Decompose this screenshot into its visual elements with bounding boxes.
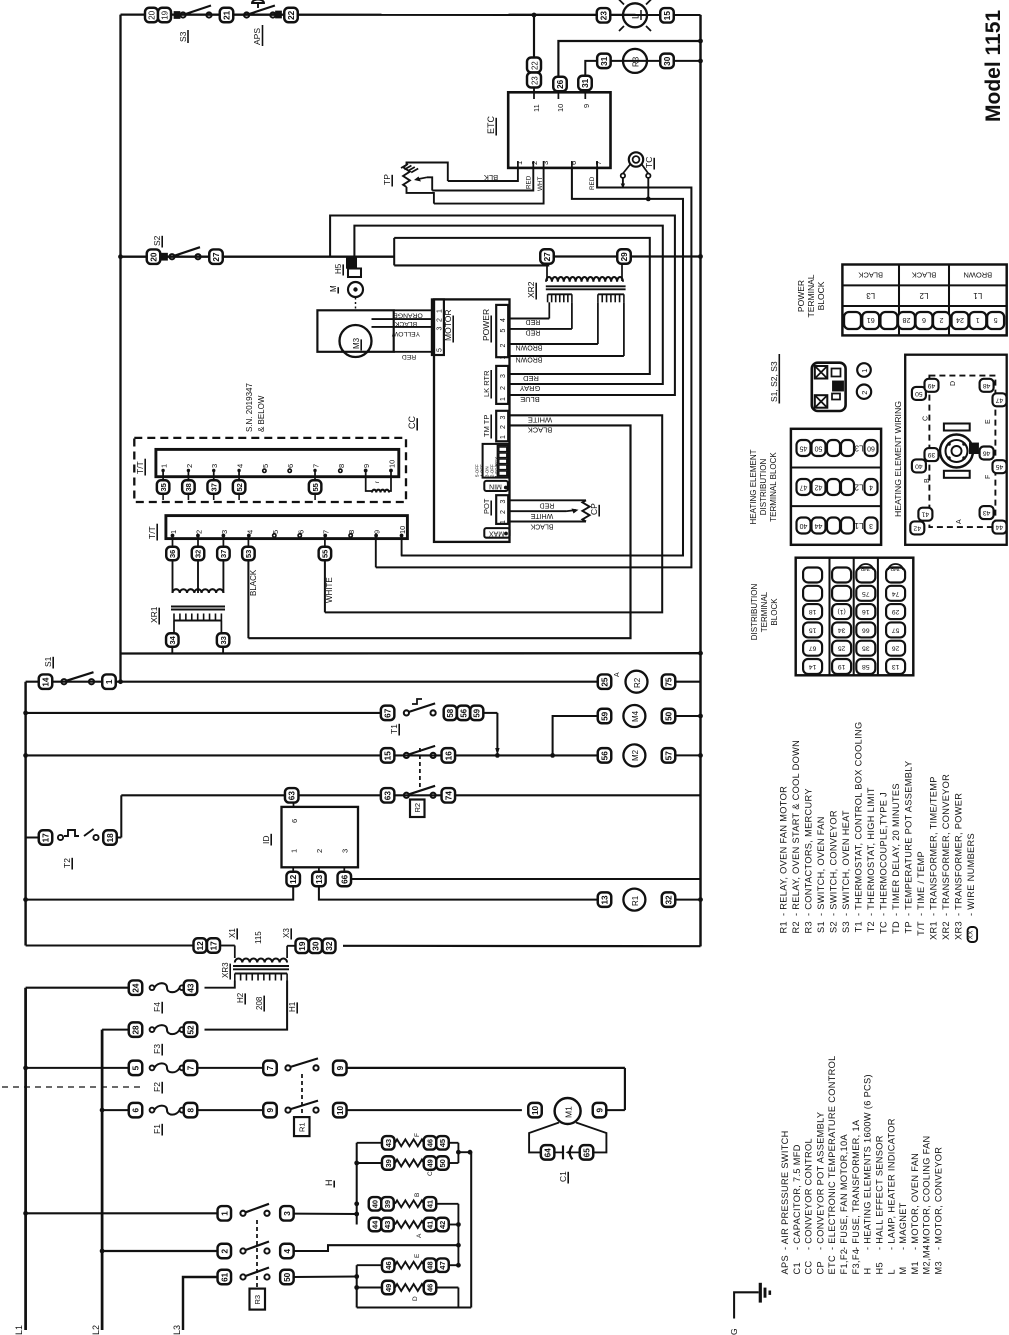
svg-text:58: 58 bbox=[862, 663, 870, 670]
svg-text:- HEATING ELEMENTS 1600W (6 PC: - HEATING ELEMENTS 1600W (6 PCS) bbox=[863, 1074, 873, 1250]
terminal 50 M4 bbox=[662, 709, 676, 724]
svg-text:S3: S3 bbox=[178, 31, 188, 42]
label F4 bbox=[152, 1002, 162, 1014]
svg-text:1: 1 bbox=[160, 464, 169, 468]
svg-text:- FUSE, FAN MOTOR,10A: - FUSE, FAN MOTOR,10A bbox=[839, 1134, 849, 1250]
wire ORANGE bbox=[393, 310, 432, 318]
terminal 7 b bbox=[263, 1061, 277, 1076]
XR2 secondary 2 bbox=[598, 294, 624, 302]
svg-text:59: 59 bbox=[600, 711, 609, 721]
svg-text:GRAY: GRAY bbox=[520, 384, 541, 393]
terminal 30 X3 bbox=[309, 939, 322, 954]
wire bank left rail 2 bbox=[354, 1265, 359, 1307]
svg-text:10: 10 bbox=[336, 1105, 345, 1115]
svg-text:16: 16 bbox=[444, 751, 453, 761]
relay coil R1 bbox=[623, 889, 645, 911]
svg-text:YELLOW: YELLOW bbox=[391, 330, 420, 337]
ETC box bbox=[508, 92, 610, 168]
hew label E bbox=[985, 419, 992, 424]
svg-text:24: 24 bbox=[956, 316, 964, 325]
svg-text:RED: RED bbox=[589, 176, 596, 190]
contactor R3 box bbox=[250, 1289, 266, 1310]
svg-text:F3: F3 bbox=[152, 1044, 162, 1054]
relay coil R3 bbox=[623, 49, 647, 73]
svg-text:2: 2 bbox=[500, 425, 507, 429]
label F3 bbox=[152, 1044, 162, 1056]
terminal 32 X3 bbox=[323, 939, 336, 954]
terminal 5 bbox=[129, 1061, 143, 1076]
terminal 67 bbox=[381, 706, 395, 721]
label WHT bbox=[537, 177, 544, 191]
wire T1 row bbox=[26, 712, 498, 714]
svg-text:POWER: POWER bbox=[481, 309, 491, 341]
node dot bus S2 bbox=[698, 254, 703, 259]
svg-text:T/T: T/T bbox=[135, 461, 145, 474]
svg-text:3: 3 bbox=[283, 1211, 292, 1216]
svg-text:4: 4 bbox=[500, 318, 507, 322]
terminal 66 bbox=[338, 872, 352, 887]
terminal 34 bbox=[166, 633, 179, 647]
svg-text:L1: L1 bbox=[14, 1325, 24, 1335]
hew label B bbox=[924, 478, 931, 483]
terminal 29 XR2 bbox=[617, 249, 631, 264]
svg-text:F2: F2 bbox=[152, 1082, 162, 1092]
fuse F2 bbox=[150, 1063, 185, 1072]
label G bbox=[729, 1328, 739, 1335]
terminal 8 bbox=[184, 1103, 198, 1118]
svg-text:M1: M1 bbox=[564, 1106, 574, 1118]
terminal 52 old bbox=[233, 480, 246, 500]
terminal 15 bbox=[660, 8, 674, 22]
svg-text:BLACK: BLACK bbox=[912, 271, 937, 280]
label E heater bbox=[414, 1253, 421, 1258]
ETC pin labels top bbox=[532, 92, 591, 112]
wire X1 row bbox=[26, 944, 701, 947]
svg-text:RED: RED bbox=[540, 501, 555, 508]
terminal 59 M4 bbox=[598, 709, 612, 724]
svg-text:37: 37 bbox=[209, 483, 218, 491]
wire row A bbox=[23, 1211, 357, 1216]
svg-text:RED: RED bbox=[526, 175, 533, 189]
svg-text:M3: M3 bbox=[352, 337, 361, 349]
svg-text:RED: RED bbox=[402, 353, 416, 360]
svg-text:L2: L2 bbox=[919, 291, 928, 300]
XR2 core bbox=[546, 286, 626, 289]
terminal 27 left bbox=[209, 249, 223, 264]
terminal 10 bbox=[333, 1103, 347, 1118]
svg-text:3: 3 bbox=[500, 500, 507, 504]
svg-text:20: 20 bbox=[147, 10, 156, 20]
label T2 bbox=[62, 858, 72, 870]
wire RED power4 bbox=[508, 318, 549, 325]
switch T1 bbox=[404, 699, 436, 716]
ptb colors bbox=[858, 271, 992, 280]
link R3 dashed bbox=[256, 1220, 258, 1288]
svg-text:- TRANSFORMER, CONVEYOR: - TRANSFORMER, CONVEYOR bbox=[941, 774, 951, 916]
svg-text:5: 5 bbox=[131, 1065, 140, 1070]
wire S2 row left bbox=[121, 256, 217, 258]
svg-text:MAX: MAX bbox=[489, 529, 505, 536]
svg-text:75: 75 bbox=[664, 677, 673, 687]
wire F4 row bbox=[26, 987, 129, 989]
lamp L bbox=[619, 0, 651, 31]
svg-text:1: 1 bbox=[860, 369, 869, 373]
node dot bus R3 bbox=[698, 59, 703, 64]
svg-text:S1: S1 bbox=[43, 656, 53, 667]
svg-text:29: 29 bbox=[892, 608, 900, 615]
wire XR1 primary risers bbox=[173, 560, 224, 593]
svg-text:R2: R2 bbox=[413, 803, 422, 813]
terminal 7 bbox=[184, 1061, 198, 1076]
svg-text:56: 56 bbox=[600, 751, 609, 761]
svg-text:39: 39 bbox=[384, 1159, 393, 1167]
svg-text:R1: R1 bbox=[631, 895, 640, 906]
svg-text:19: 19 bbox=[298, 941, 307, 951]
svg-text:- THERMOSTAT, HIGH LIMIT: - THERMOSTAT, HIGH LIMIT bbox=[866, 787, 876, 916]
svg-text:7: 7 bbox=[312, 464, 321, 468]
link R2 contacts dashed bbox=[419, 748, 421, 789]
svg-text:WHITE: WHITE bbox=[530, 512, 553, 519]
svg-text:HEATING ELEMENT: HEATING ELEMENT bbox=[749, 449, 758, 524]
svg-text:M: M bbox=[329, 285, 338, 292]
svg-text:4: 4 bbox=[245, 530, 254, 534]
svg-text:47: 47 bbox=[438, 1261, 447, 1269]
dtb column 2 bbox=[832, 568, 851, 675]
terminal 1 bbox=[102, 674, 116, 689]
svg-text:49: 49 bbox=[928, 382, 936, 389]
circled 2 bbox=[857, 385, 871, 399]
svg-text:23: 23 bbox=[599, 11, 608, 21]
svg-text:28: 28 bbox=[903, 316, 911, 325]
terminal 56 bbox=[457, 706, 470, 721]
label H5 bbox=[334, 263, 343, 275]
svg-text:10: 10 bbox=[556, 104, 565, 112]
svg-text:WHITE: WHITE bbox=[325, 577, 334, 603]
switch R1 contact b bbox=[285, 1101, 318, 1113]
label H1 bbox=[288, 1001, 297, 1013]
svg-text:3: 3 bbox=[341, 849, 350, 853]
wire 13 to R1 bbox=[319, 886, 598, 899]
terminal 18 bbox=[103, 830, 117, 845]
hew label C bbox=[923, 416, 930, 421]
hew outer box bbox=[905, 355, 1007, 545]
svg-text:- CAPACITOR, 7.5 MFD: - CAPACITOR, 7.5 MFD bbox=[792, 1144, 802, 1250]
label ID bbox=[261, 834, 271, 846]
wire right main bus bbox=[699, 15, 701, 947]
terminal 61 bbox=[218, 1270, 232, 1285]
svg-text:- MAGNET: - MAGNET bbox=[898, 1202, 908, 1250]
svg-text:41: 41 bbox=[426, 1221, 435, 1229]
svg-text:A: A bbox=[416, 1233, 423, 1238]
terminal 58 bbox=[444, 706, 457, 721]
XR1 primary coil bbox=[173, 589, 224, 593]
svg-text:TC: TC bbox=[644, 157, 654, 168]
dip switch block bbox=[475, 444, 509, 478]
label X3 bbox=[282, 928, 291, 940]
svg-text:22: 22 bbox=[287, 10, 296, 20]
label S2 bbox=[152, 235, 162, 247]
wire T2 branch bbox=[26, 795, 122, 837]
svg-text:T2: T2 bbox=[62, 858, 72, 868]
svg-text:64: 64 bbox=[544, 1148, 553, 1158]
hew label A bbox=[956, 519, 963, 524]
terminal 1 row bbox=[218, 1206, 232, 1221]
svg-text:2: 2 bbox=[185, 464, 194, 468]
terminal 38 old bbox=[182, 480, 195, 500]
svg-text:45: 45 bbox=[438, 1139, 447, 1147]
label GRAY bbox=[520, 384, 541, 393]
svg-text:5: 5 bbox=[261, 464, 270, 468]
terminal 32 bbox=[192, 536, 205, 561]
svg-text:ORANGE: ORANGE bbox=[393, 312, 423, 319]
motor M2 bbox=[623, 744, 645, 766]
svg-text:BLACK: BLACK bbox=[394, 320, 417, 327]
fuse F4 bbox=[150, 983, 185, 992]
svg-text:D: D bbox=[950, 381, 957, 386]
ground bbox=[734, 1283, 770, 1319]
XR1 secondary bbox=[174, 614, 221, 633]
terminal 3 row bbox=[280, 1206, 294, 1221]
svg-text:7: 7 bbox=[594, 161, 603, 165]
svg-text:BROWN: BROWN bbox=[516, 344, 543, 351]
svg-text:TERMINAL: TERMINAL bbox=[806, 274, 816, 317]
T/T pin contacts bbox=[171, 534, 404, 538]
svg-text:9: 9 bbox=[582, 104, 591, 108]
svg-text:T1: T1 bbox=[854, 921, 864, 932]
label RED pin7 bbox=[589, 176, 596, 190]
svg-text:F4: F4 bbox=[152, 1002, 162, 1012]
svg-text:H5: H5 bbox=[874, 1262, 884, 1274]
svg-text:TM TP: TM TP bbox=[482, 415, 491, 437]
hd section L3 bbox=[797, 440, 878, 456]
terminal 15 row2 bbox=[381, 748, 395, 763]
svg-text:50: 50 bbox=[915, 390, 923, 397]
svg-text:41: 41 bbox=[426, 1200, 435, 1208]
svg-text:RED: RED bbox=[526, 329, 541, 336]
relay R1 box bbox=[294, 1117, 310, 1136]
svg-text:1: 1 bbox=[105, 679, 114, 684]
svg-text:16: 16 bbox=[862, 608, 870, 615]
svg-text:45: 45 bbox=[800, 445, 808, 452]
svg-text:34: 34 bbox=[838, 626, 846, 633]
wire R3 row bbox=[610, 60, 700, 62]
svg-text:T/T: T/T bbox=[147, 526, 157, 539]
wire M4 branch bbox=[553, 716, 598, 755]
link R1 dashed bbox=[301, 1074, 303, 1117]
terminal 59 bbox=[470, 706, 483, 721]
svg-text:9: 9 bbox=[266, 1108, 275, 1113]
circled 1 bbox=[857, 363, 871, 377]
wire R1 to bus bbox=[676, 897, 703, 902]
svg-text:13: 13 bbox=[600, 895, 609, 905]
wire T1 drop bbox=[495, 713, 499, 756]
wire BLACK pot bbox=[508, 522, 586, 530]
ID pin 6 bbox=[290, 803, 299, 823]
svg-text:S.N. 2019347: S.N. 2019347 bbox=[245, 383, 254, 432]
svg-text:26: 26 bbox=[556, 79, 565, 89]
svg-text:TC: TC bbox=[879, 921, 889, 934]
svg-text:H5: H5 bbox=[334, 263, 343, 274]
connector MIN bbox=[484, 481, 508, 491]
svg-text:4: 4 bbox=[283, 1248, 292, 1253]
terminal 52 F3 bbox=[184, 1022, 198, 1037]
svg-text:3: 3 bbox=[869, 522, 873, 529]
svg-text:M2: M2 bbox=[631, 749, 640, 761]
wire XR2 sec2 legs bbox=[598, 302, 624, 356]
svg-text:T2: T2 bbox=[866, 921, 876, 932]
heater A bbox=[369, 1218, 459, 1232]
ptb phases bbox=[866, 291, 983, 300]
label TC bbox=[644, 157, 654, 170]
svg-text:- TEMPERATURE POT ASSEMBLY: - TEMPERATURE POT ASSEMBLY bbox=[904, 761, 914, 916]
terminal 17 X1 bbox=[207, 938, 220, 953]
label RED loop bbox=[523, 374, 539, 383]
terminal 24 bbox=[129, 980, 143, 995]
label X1 bbox=[228, 928, 237, 940]
hew label F bbox=[985, 475, 992, 479]
label RED pin2 bbox=[526, 175, 533, 189]
connector POT bbox=[482, 495, 508, 524]
svg-text:61: 61 bbox=[220, 1272, 229, 1282]
svg-text:115: 115 bbox=[254, 931, 263, 944]
wire ETC pin11 riser bbox=[533, 15, 535, 58]
wire XR3 primary left bbox=[205, 981, 235, 988]
terminal 6 bbox=[129, 1103, 143, 1118]
label XR3 bbox=[221, 962, 230, 980]
wire TP bottom bbox=[407, 187, 434, 204]
svg-text:ID: ID bbox=[261, 836, 271, 845]
svg-text:- RELAY, OVEN FAN MOTOR: - RELAY, OVEN FAN MOTOR bbox=[779, 786, 789, 916]
terminal 12 bbox=[286, 872, 300, 887]
wire 34-33 to bus bbox=[121, 647, 703, 656]
svg-text:43: 43 bbox=[384, 1139, 393, 1147]
hd section L2 bbox=[797, 479, 878, 495]
connector TM TP bbox=[482, 411, 508, 442]
svg-text:14: 14 bbox=[809, 663, 817, 670]
switch R1 contact a bbox=[285, 1058, 318, 1070]
terminal 4 row bbox=[280, 1244, 294, 1259]
wire C1 right bbox=[576, 1123, 606, 1153]
svg-text:40: 40 bbox=[800, 522, 808, 529]
svg-text:39: 39 bbox=[928, 451, 936, 458]
svg-text:1: 1 bbox=[169, 530, 178, 534]
svg-text:48: 48 bbox=[426, 1261, 435, 1269]
terminal 63 b bbox=[381, 788, 395, 803]
label T/T bbox=[147, 524, 157, 541]
svg-text:15: 15 bbox=[809, 626, 817, 633]
svg-text:- THERMOSTAT, CONTROL BOX COOL: - THERMOSTAT, CONTROL BOX COOLING bbox=[854, 722, 864, 916]
heater F bbox=[357, 1136, 459, 1150]
svg-text:XR1: XR1 bbox=[929, 921, 939, 940]
svg-text:CC: CC bbox=[407, 416, 417, 429]
terminal 2 row bbox=[218, 1244, 232, 1259]
XR3 secondary bbox=[220, 946, 295, 963]
svg-text:1: 1 bbox=[290, 849, 299, 853]
svg-text:44: 44 bbox=[815, 522, 823, 529]
svg-text:28: 28 bbox=[131, 1025, 140, 1035]
magnet M bbox=[348, 282, 363, 297]
svg-text:WHITE: WHITE bbox=[528, 415, 552, 424]
svg-text:32: 32 bbox=[325, 941, 334, 951]
svg-text:APS: APS bbox=[252, 28, 262, 45]
hew motor bbox=[940, 424, 978, 478]
relay coil R2 bbox=[626, 671, 648, 693]
terminal 16 bbox=[442, 748, 456, 763]
svg-text:CP: CP bbox=[815, 1261, 825, 1274]
hew terminal 40 bbox=[912, 459, 926, 472]
svg-text:- MOTOR, CONVEYOR: - MOTOR, CONVEYOR bbox=[934, 1147, 944, 1250]
XR3 core bbox=[233, 966, 289, 969]
hew terminal 44 bbox=[993, 521, 1007, 534]
wire RED pin2 bbox=[432, 168, 533, 191]
svg-text:- WIRE NUMBERS: - WIRE NUMBERS bbox=[966, 833, 976, 916]
wire bank right 2 bbox=[456, 1204, 461, 1268]
svg-text:H: H bbox=[324, 1180, 334, 1187]
wire bank bottom bbox=[357, 1288, 472, 1308]
XR2 primary bbox=[546, 264, 623, 282]
wire pin9 riser bbox=[375, 536, 377, 568]
ptb terminals L3 bbox=[844, 312, 897, 329]
svg-text:25: 25 bbox=[600, 677, 609, 687]
svg-text:S2: S2 bbox=[152, 235, 162, 246]
svg-text:BLACK: BLACK bbox=[530, 522, 553, 529]
terminal 20 S2 bbox=[147, 249, 161, 264]
svg-text:63: 63 bbox=[288, 791, 297, 801]
wire pin10 riser bbox=[401, 536, 403, 556]
terminal strip T/T bbox=[166, 516, 408, 539]
wire BLK pin1 bbox=[448, 168, 518, 181]
svg-text:3: 3 bbox=[541, 161, 550, 165]
svg-text:- LAMP, HEATER INDICATOR: - LAMP, HEATER INDICATOR bbox=[886, 1118, 896, 1250]
svg-text:8: 8 bbox=[186, 1108, 195, 1113]
svg-text:1: 1 bbox=[500, 435, 507, 439]
wire TP wiper bbox=[427, 177, 432, 190]
wire bank right 1 bbox=[456, 1143, 472, 1163]
svg-text:- ELECTRONIC TEMPERATURE CONTR: - ELECTRONIC TEMPERATURE CONTROL bbox=[827, 1055, 837, 1250]
svg-text:TD: TD bbox=[891, 921, 901, 934]
svg-text:61: 61 bbox=[867, 316, 875, 325]
terminal 53 bbox=[242, 536, 255, 561]
motor M3 bbox=[340, 325, 372, 357]
terminal 50 row bbox=[280, 1270, 294, 1285]
label heating element distribution bbox=[749, 449, 778, 524]
label 208 bbox=[255, 996, 264, 1012]
label CC bbox=[407, 416, 417, 431]
wire TP top bbox=[407, 163, 448, 182]
svg-text:65: 65 bbox=[582, 1148, 591, 1158]
wire S1 row bbox=[26, 681, 598, 683]
XR1 core bbox=[171, 607, 225, 610]
svg-text:CC: CC bbox=[804, 1261, 814, 1275]
heater D bbox=[357, 1281, 459, 1295]
label heating element wiring bbox=[893, 401, 903, 517]
label BLACK bbox=[528, 426, 553, 435]
dtb column 4 bbox=[886, 564, 905, 674]
svg-text:2: 2 bbox=[194, 530, 203, 534]
svg-text:22: 22 bbox=[530, 61, 539, 70]
svg-text:- CONVEYOR POT ASSEMBLY: - CONVEYOR POT ASSEMBLY bbox=[815, 1112, 825, 1250]
svg-text:17: 17 bbox=[41, 833, 50, 843]
svg-text:66: 66 bbox=[862, 626, 870, 633]
svg-text:1-FG/RGY: 1-FG/RGY bbox=[494, 457, 499, 478]
svg-text:TP: TP bbox=[904, 921, 914, 933]
svg-text:12: 12 bbox=[196, 941, 205, 951]
wire RED power5 bbox=[508, 329, 572, 336]
terminal 10 M1 bbox=[528, 1103, 542, 1118]
terminal 75 bbox=[662, 674, 676, 689]
svg-text:BLK: BLK bbox=[484, 173, 498, 182]
svg-text:36: 36 bbox=[168, 550, 177, 558]
